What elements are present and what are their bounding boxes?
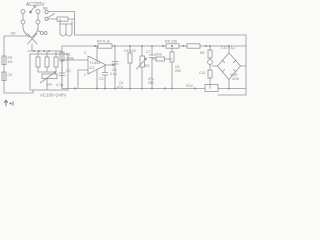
label VD3	[155, 53, 162, 57]
wire	[228, 80, 230, 89]
node AC220V label	[26, 2, 45, 8]
node dot	[151, 45, 153, 47]
svg-text:C2: C2	[66, 69, 71, 73]
wire op-amp V+	[96, 46, 98, 61]
capacitor C3	[102, 65, 108, 89]
label AC100-240V	[40, 93, 66, 98]
diode VD3	[152, 57, 172, 61]
wire	[241, 65, 247, 67]
label C4	[117, 81, 123, 89]
svg-text:TL431: TL431	[90, 61, 101, 65]
bridge VD5-VD8	[218, 53, 241, 80]
svg-text:3: 3	[84, 51, 86, 55]
wire top bus to right edge	[75, 34, 247, 36]
switch SB	[45, 10, 55, 20]
wire	[38, 67, 56, 72]
label IC1	[90, 61, 101, 70]
transformer T winding	[60, 19, 72, 36]
ground	[4, 100, 13, 106]
wire	[31, 44, 33, 51]
wire	[22, 24, 24, 28]
wire	[212, 65, 218, 67]
op-amp IC1	[88, 56, 106, 74]
svg-text:0.1μ: 0.1μ	[110, 72, 117, 76]
svg-text:1M: 1M	[8, 60, 13, 64]
plug pin P2	[36, 10, 40, 14]
wire	[129, 46, 131, 89]
capacitor C7	[149, 46, 155, 89]
switch SB label	[43, 6, 49, 11]
resistor R8	[208, 46, 212, 58]
node dot	[141, 45, 143, 47]
svg-text:C9: C9	[8, 73, 13, 77]
node dot	[151, 88, 153, 90]
fuse FU	[57, 17, 68, 21]
svg-text:R5 10k: R5 10k	[165, 40, 177, 44]
triac VS cross	[28, 34, 38, 45]
resistor R2	[128, 53, 132, 63]
svg-text:4.7μ: 4.7μ	[56, 83, 63, 87]
node dot	[183, 45, 185, 47]
svg-text:C7: C7	[146, 50, 150, 54]
wire secondary bus	[28, 50, 62, 52]
wire	[37, 24, 39, 28]
svg-text:R3: R3	[145, 64, 149, 68]
wire	[22, 14, 24, 21]
wire bottom right border	[218, 94, 246, 96]
node dot	[114, 45, 116, 47]
node dot	[96, 88, 98, 90]
svg-text:2: 2	[84, 73, 86, 77]
label C3	[99, 77, 103, 81]
wire op-amp V-	[96, 70, 98, 89]
label VD5-VD8	[230, 73, 239, 81]
label C11	[221, 46, 235, 50]
label C7	[146, 50, 150, 54]
node dot	[171, 45, 173, 47]
wire mid bus	[114, 46, 116, 89]
resistor R7	[170, 48, 174, 89]
label R4	[97, 40, 110, 44]
svg-text:47μ: 47μ	[117, 85, 123, 89]
svg-text:C3: C3	[99, 77, 103, 81]
resistor Rb	[45, 57, 49, 67]
svg-text:25V: 25V	[175, 69, 182, 73]
node dot	[94, 45, 96, 47]
transformer T primary funnel	[23, 28, 38, 37]
node dot	[129, 45, 131, 47]
label C6	[124, 49, 136, 53]
plug pin P1	[21, 10, 25, 14]
node dot	[38, 50, 40, 52]
node dot	[61, 59, 63, 61]
capacitor C5	[112, 62, 118, 65]
wire	[229, 88, 246, 90]
node dot	[141, 88, 143, 90]
wire left bus	[61, 46, 63, 89]
node dot	[205, 45, 207, 47]
node dot	[171, 88, 173, 90]
svg-text:VD8: VD8	[232, 77, 239, 81]
resistor Rc	[54, 57, 58, 67]
svg-text:C10: C10	[199, 71, 205, 75]
label R9	[8, 56, 13, 64]
zener DW pair	[38, 31, 47, 35]
node dot	[104, 88, 106, 90]
label RP	[47, 83, 53, 87]
potentiometer RP	[40, 72, 57, 84]
resistor R6	[187, 44, 200, 48]
neon lamp HL	[29, 6, 35, 14]
potentiometer RP1	[137, 56, 147, 69]
svg-text:25V: 25V	[148, 81, 155, 85]
wire	[141, 46, 143, 89]
node dot	[162, 45, 164, 47]
wire right edge	[245, 35, 247, 95]
capacitor C9	[2, 72, 6, 81]
label C9	[8, 73, 13, 77]
node dot	[33, 50, 35, 52]
connector XS	[205, 85, 229, 92]
node dot	[209, 45, 211, 47]
svg-text:C11 0.1μ: C11 0.1μ	[221, 46, 235, 50]
wire input-	[78, 70, 88, 89]
wire	[38, 51, 56, 57]
svg-text:VD4: VD4	[186, 84, 193, 88]
pin 3	[84, 51, 86, 55]
module box	[30, 54, 68, 90]
wire bottom bus	[62, 88, 205, 90]
node dot	[228, 88, 230, 90]
node dot	[194, 88, 196, 90]
label C10	[199, 71, 205, 75]
wire	[228, 46, 230, 53]
wire top bus	[62, 45, 246, 47]
node dot	[43, 50, 45, 52]
wire	[4, 92, 33, 94]
wire	[68, 12, 75, 36]
node dot	[114, 88, 116, 90]
label R8	[200, 51, 204, 55]
label R7	[175, 65, 182, 73]
svg-text:1W: 1W	[10, 32, 16, 36]
node dot	[228, 45, 230, 47]
node dot	[74, 88, 76, 90]
wire	[4, 35, 28, 37]
socket terminal X1	[21, 20, 25, 24]
svg-text:IC1: IC1	[90, 66, 95, 70]
wire	[32, 90, 34, 93]
node dot	[112, 64, 114, 66]
label R1	[66, 53, 74, 61]
resistor R9	[2, 56, 6, 65]
wire	[46, 79, 48, 91]
socket terminal X2	[36, 20, 40, 24]
LED HL2	[208, 58, 213, 67]
label R5	[165, 40, 177, 44]
label C2	[56, 69, 71, 87]
wire output	[106, 64, 115, 66]
capacitor C2	[59, 61, 65, 89]
node dot	[164, 88, 166, 90]
label C5	[110, 68, 117, 76]
svg-text:R4 5.1k: R4 5.1k	[97, 40, 110, 44]
label R3	[145, 64, 149, 68]
svg-text:SB: SB	[43, 6, 49, 11]
resistor Ra	[36, 57, 40, 67]
label VD4	[186, 84, 193, 88]
capacitor C10v	[208, 67, 212, 89]
resistor R1	[60, 52, 64, 61]
svg-text:VD3: VD3	[155, 53, 162, 57]
resistor R4	[98, 44, 112, 48]
wire input+	[62, 59, 88, 61]
pin 2	[84, 73, 86, 77]
svg-text:AC100~240V: AC100~240V	[40, 93, 66, 98]
resistor R5	[166, 44, 179, 48]
wire	[37, 14, 39, 21]
label 25V	[148, 77, 155, 85]
node dot	[48, 50, 50, 52]
wire	[48, 18, 57, 20]
wire	[48, 11, 74, 13]
svg-text:R8: R8	[200, 51, 204, 55]
node dot	[129, 88, 131, 90]
svg-text:RP: RP	[47, 83, 53, 87]
wire left edge	[3, 36, 5, 93]
label 1W	[10, 32, 16, 36]
